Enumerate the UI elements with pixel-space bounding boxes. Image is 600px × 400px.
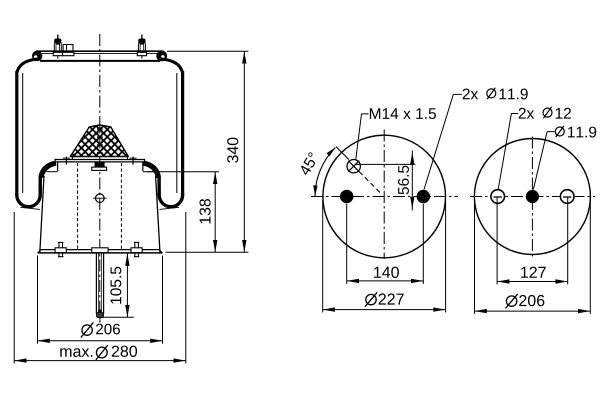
dim 227 ext left: [322, 200, 324, 312]
arrow 138 top: [213, 172, 217, 184]
dim max280 extension left: [13, 212, 15, 363]
right shoulder curve: [159, 59, 183, 73]
label 140: [374, 267, 399, 278]
air fitting symbol M14: [347, 160, 360, 173]
bellows clamped top edge: [40, 60, 160, 62]
centre hole (filled) dia 11.9: [526, 190, 539, 203]
leader 11.9 right: [533, 132, 554, 190]
dim 105.5 tick at stud tip: [102, 316, 134, 318]
arrow 105.5 top: [125, 254, 129, 266]
dim 138 line: [214, 172, 216, 253]
bumper plate end caps: [55, 159, 145, 163]
arc arrow top: [327, 147, 336, 156]
label 127: [521, 267, 546, 278]
dim max280 line: [14, 360, 186, 362]
centerline horizontal middle view: [311, 196, 458, 198]
leader 2x 12: [498, 114, 518, 190]
left rolling lobe U-fold: [17, 163, 56, 207]
arrow 206L left: [38, 339, 50, 343]
label 138: [199, 199, 210, 223]
rubber bumper dome: [70, 125, 128, 157]
bumper base cylinder: [72, 157, 127, 160]
arrow max280 right: [174, 358, 186, 362]
label dia 206 left view: [81, 322, 120, 337]
arrow max280 left: [14, 358, 26, 362]
arrow 140 left: [347, 279, 359, 283]
bead plate circle: [323, 135, 446, 258]
centre stud tip: [96, 309, 103, 322]
right fold corner wedge: [143, 163, 158, 177]
bolt hole left (filled): [340, 190, 353, 203]
label 340: [227, 138, 238, 163]
arrow 206L right: [150, 339, 162, 343]
piston bottom plate: [38, 250, 163, 253]
top plate main line: [36, 50, 164, 52]
right hole dia 12: [560, 190, 574, 204]
bellows inner wall thin left: [22, 73, 24, 193]
arrow 105.5 bottom: [125, 305, 129, 317]
plate clamp tick right: [130, 157, 137, 165]
dim max280 extension right: [185, 212, 187, 363]
45deg arc: [315, 148, 335, 197]
dim 206 extension right: [162, 256, 164, 344]
piston skirt edge right: [156, 176, 160, 253]
left hole dia 12: [491, 190, 505, 204]
top plate lower thin line: [42, 52, 158, 54]
left under-lobe tangent: [21, 207, 41, 209]
dim 227 ext right: [445, 200, 447, 312]
dim 206 line: [38, 340, 163, 342]
bolt stud M2 on top plate: [137, 35, 146, 59]
M14 horizontal reference line: [356, 163, 415, 165]
right rolled plate edge: [156, 51, 167, 62]
dim 340 extension top: [167, 50, 248, 52]
centerline horizontal right view: [470, 196, 595, 198]
label 105.5: [110, 267, 121, 304]
dim 105.5 line: [126, 254, 128, 318]
left shoulder curve: [17, 59, 40, 73]
arrow 56.5 top: [410, 152, 414, 164]
dim 56.5 line: [411, 151, 413, 211]
label 56.5: [398, 166, 409, 195]
bumper plate top line: [55, 159, 145, 161]
leader M14: [356, 114, 369, 160]
piston hidden line left: [77, 163, 79, 249]
plate clamp tick left: [63, 157, 70, 165]
leader 2x 11.9: [424, 94, 462, 189]
arrow 340 top: [242, 51, 246, 63]
centerline vertical right view: [531, 137, 533, 260]
dim 138 extension: [147, 171, 219, 173]
bellows outer wall right: [181, 71, 184, 194]
bottom clamp bolt left: [55, 242, 66, 256]
piston top step left: [47, 171, 58, 173]
bellows inner wall thin right: [176, 73, 178, 193]
arrow 138 bottom: [213, 240, 217, 252]
right rolling lobe U-fold: [144, 163, 183, 207]
label max dia 280: [60, 345, 137, 360]
arrow 206R right: [578, 309, 590, 313]
bumper nut below plate: [92, 162, 107, 171]
dim 127 line: [497, 281, 568, 283]
label 45deg: [301, 152, 315, 175]
piston wall hole: [93, 194, 107, 203]
label 2x dia 12: [519, 107, 571, 119]
arrow 127 left: [497, 279, 509, 283]
centerline vertical middle view: [383, 130, 385, 260]
piston plate circle: [474, 139, 590, 255]
piston top step right: [143, 171, 154, 173]
middle hole ext line left: [346, 204, 348, 284]
dim 227 line: [323, 309, 446, 311]
arrow 227 right: [433, 307, 445, 311]
bolt stud M1 on top plate: [53, 35, 62, 59]
45deg radial line solid part: [336, 147, 349, 160]
right under-lobe tangent: [160, 207, 180, 209]
arrow 206R left: [475, 309, 487, 313]
dim 340 line: [243, 51, 245, 252]
bellows outer wall left: [15, 71, 18, 194]
label dia 11.9 right: [555, 126, 596, 138]
piston skirt edge left: [40, 176, 44, 253]
air fitting on top plate: [63, 45, 74, 56]
bumper centre mount rect: [98, 128, 102, 156]
right hole ext line left: [496, 197, 498, 284]
dim 206R ext left: [474, 199, 476, 314]
piston rim vertical right: [142, 162, 144, 171]
centre stud flange: [92, 248, 108, 253]
bolt hole right (filled): [417, 190, 430, 203]
45deg radial dashed to centre: [359, 172, 382, 195]
arrow 127 right: [555, 279, 567, 283]
dim 206R ext right: [589, 199, 591, 314]
label dia 206 right view: [506, 294, 545, 308]
arrow 227 left: [323, 307, 335, 311]
arrow 56.5 bottom: [410, 197, 414, 209]
label dia 227: [365, 292, 404, 306]
dim 206 extension left: [37, 256, 39, 344]
dim 206R line: [475, 310, 591, 312]
left rolled plate edge: [32, 51, 42, 61]
piston hidden line right: [120, 163, 122, 249]
centerline left view: [99, 34, 101, 323]
right hole ext line right: [567, 197, 569, 284]
arc arrow bottom: [313, 185, 317, 196]
piston rim vertical left: [57, 162, 59, 171]
dim shared extension bottom: [166, 251, 249, 253]
arrow 140 right: [411, 279, 423, 283]
bumper plate bottom line: [55, 161, 145, 163]
label 2x dia 11.9: [463, 88, 528, 100]
centre stud shaft: [96, 253, 103, 314]
dim 140 line: [347, 280, 424, 282]
label M14 x 1.5: [370, 108, 436, 119]
arrow 340 bottom: [242, 240, 246, 252]
middle hole ext line right: [422, 204, 424, 284]
bottom clamp bolt right: [131, 242, 142, 256]
left fold corner wedge: [41, 163, 56, 177]
